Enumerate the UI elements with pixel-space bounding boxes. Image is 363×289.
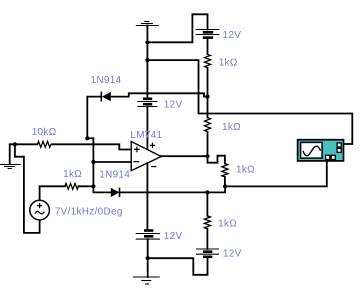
wire 10k row left xyxy=(15,143,38,145)
battery V2 xyxy=(137,99,157,107)
wire output jog to R5 xyxy=(208,156,225,164)
ground GND_bottom xyxy=(133,277,160,284)
wire op-amp output xyxy=(161,155,207,157)
svg-text:1kΩ: 1kΩ xyxy=(63,169,82,180)
battery V4 xyxy=(196,249,219,257)
node B (dot at 147,60) xyxy=(145,58,149,62)
wire D2 cathode to node J xyxy=(120,191,208,193)
wire bottom ground stem xyxy=(147,258,149,277)
svg-text:1kΩ: 1kΩ xyxy=(218,219,237,230)
resistor R2 1k xyxy=(205,118,211,132)
svg-text:1kΩ: 1kΩ xyxy=(236,165,255,176)
op-amp U1 LM741 xyxy=(131,142,161,171)
resistor R6 1k xyxy=(204,216,210,229)
wire node I to node J xyxy=(207,186,225,192)
svg-text:12V: 12V xyxy=(164,100,183,111)
wire source top to R4 xyxy=(40,186,65,200)
source V5 7V/1kHz xyxy=(30,200,50,220)
wire V1 top loop xyxy=(147,14,207,42)
wire node I to scope A xyxy=(225,161,327,186)
wire center rail upper xyxy=(146,42,148,99)
wire R5 to node I xyxy=(224,177,226,186)
diode D2 1N914 xyxy=(111,188,120,198)
diode D1 1N914 xyxy=(101,92,111,102)
wire node J to R6 xyxy=(206,192,208,216)
wire R1 to node C xyxy=(207,68,209,97)
wire V3 bottom to node K xyxy=(147,239,149,258)
node J (dot at 207,192) xyxy=(205,190,209,194)
svg-text:1N914: 1N914 xyxy=(99,170,130,181)
resistor R3 10k xyxy=(37,141,50,147)
wire R6 to V4 xyxy=(206,229,208,249)
wire node F to source bottom xyxy=(15,144,40,233)
wire top ground stem xyxy=(146,26,148,43)
node C (dot at 207,96) xyxy=(205,95,209,99)
battery V1 xyxy=(196,30,220,38)
wire inverting input xyxy=(93,161,131,163)
svg-text:12V: 12V xyxy=(223,249,242,260)
wire ground branch to scope G xyxy=(147,60,352,144)
node A (dot at 147,42) xyxy=(145,40,149,44)
node H (dot at 207,156) xyxy=(205,154,209,158)
battery V3 xyxy=(136,231,160,240)
wire V2 to op-amp V+ pin xyxy=(146,107,148,150)
svg-text:10kΩ: 10kΩ xyxy=(32,127,57,138)
node G (dot at 93,186) xyxy=(91,184,95,188)
wire D1 cathode down xyxy=(87,97,101,187)
svg-text:7V/1kHz/0Deg: 7V/1kHz/0Deg xyxy=(55,207,123,218)
node K (dot at 147,258) xyxy=(146,256,150,260)
oscilloscope XSC1 xyxy=(298,140,344,161)
wire R2 top to node C xyxy=(207,97,209,118)
resistor R1 1k xyxy=(205,54,211,67)
node D (dot at 87,138) xyxy=(85,136,89,140)
wire D1 anode to node C xyxy=(111,93,207,96)
wire 10k to noninverting input xyxy=(52,144,131,149)
svg-text:1kΩ: 1kΩ xyxy=(222,122,241,133)
node E (dot at 93,162) xyxy=(91,160,95,164)
svg-text:1kΩ: 1kΩ xyxy=(219,58,238,69)
svg-text:LM741: LM741 xyxy=(130,130,162,141)
svg-text:12V: 12V xyxy=(164,231,183,242)
wire V4 bottom loop xyxy=(148,258,208,275)
wire op-amp V- pin to V3 xyxy=(146,163,148,230)
wire feedback to R2 xyxy=(207,132,209,156)
resistor R5 1k xyxy=(222,164,228,177)
svg-text:12V: 12V xyxy=(223,30,242,41)
svg-text:1N914: 1N914 xyxy=(91,75,122,86)
wire node G to D2 xyxy=(93,186,110,192)
ground GND_top (inverted) xyxy=(136,22,159,26)
ground GND_left xyxy=(0,165,21,169)
resistor R4 1k xyxy=(65,183,78,189)
wire left ground branch xyxy=(10,144,15,164)
wire V1 to R1 xyxy=(207,39,209,55)
wire R4 to node G xyxy=(78,185,93,187)
node I (dot at 225,186) xyxy=(223,184,227,188)
node F (dot at 15,144) xyxy=(13,142,17,146)
